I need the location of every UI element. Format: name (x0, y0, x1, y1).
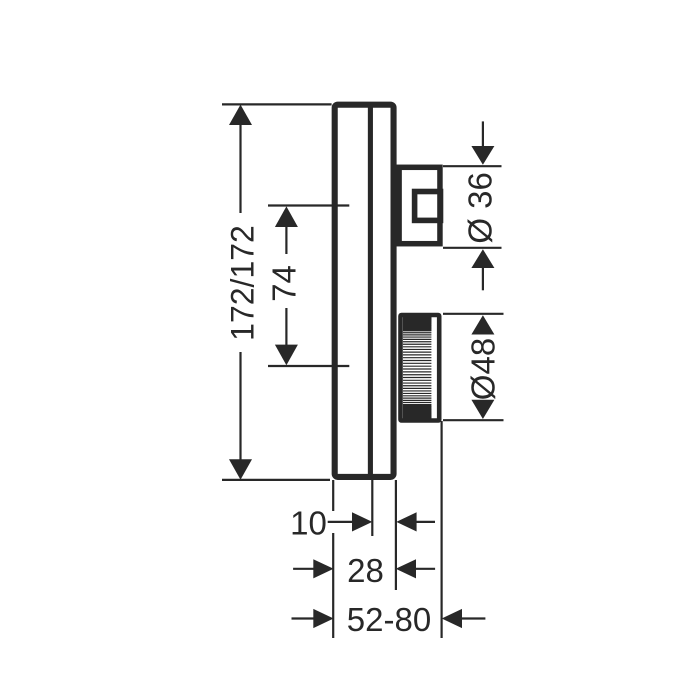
svg-text:28: 28 (347, 552, 384, 589)
dimension 172/172 vertical line with arrows (229, 105, 252, 480)
extension lines for diam 48 (443, 314, 504, 420)
svg-text:10: 10 (290, 505, 327, 542)
svg-text:Ø48: Ø48 (465, 338, 502, 400)
dimension 74 vertical line with arrows (275, 206, 298, 365)
svg-text:74: 74 (266, 265, 303, 302)
svg-text:172/172: 172/172 (225, 225, 261, 341)
bottom extension line from plate left wall (332, 480, 334, 638)
dimension diam 36 arrows (outside) (471, 121, 494, 290)
dimension 52-80 (292, 609, 486, 628)
bottom extension line from plate right wall (395, 480, 397, 590)
svg-text:52-80: 52-80 (347, 601, 431, 638)
knurled knob (diam 48) (401, 315, 440, 421)
handle hub (diam 36) outline (399, 167, 440, 243)
extension lines for 74 (268, 206, 349, 367)
escutcheon plate outline (side view) (335, 105, 394, 477)
extension lines for diam 36 (443, 166, 502, 248)
bottom extension line from plate middle wall (371, 480, 373, 536)
extension line top (172) (222, 103, 332, 105)
svg-text:Ø 36: Ø 36 (462, 172, 499, 244)
dimension 10 (328, 512, 435, 531)
bottom extension line from knob right face (441, 421, 443, 638)
dimension 28 (293, 559, 435, 578)
extension line bottom (172) (222, 479, 330, 481)
dimension diam 48 arrows (inside) (471, 315, 494, 419)
